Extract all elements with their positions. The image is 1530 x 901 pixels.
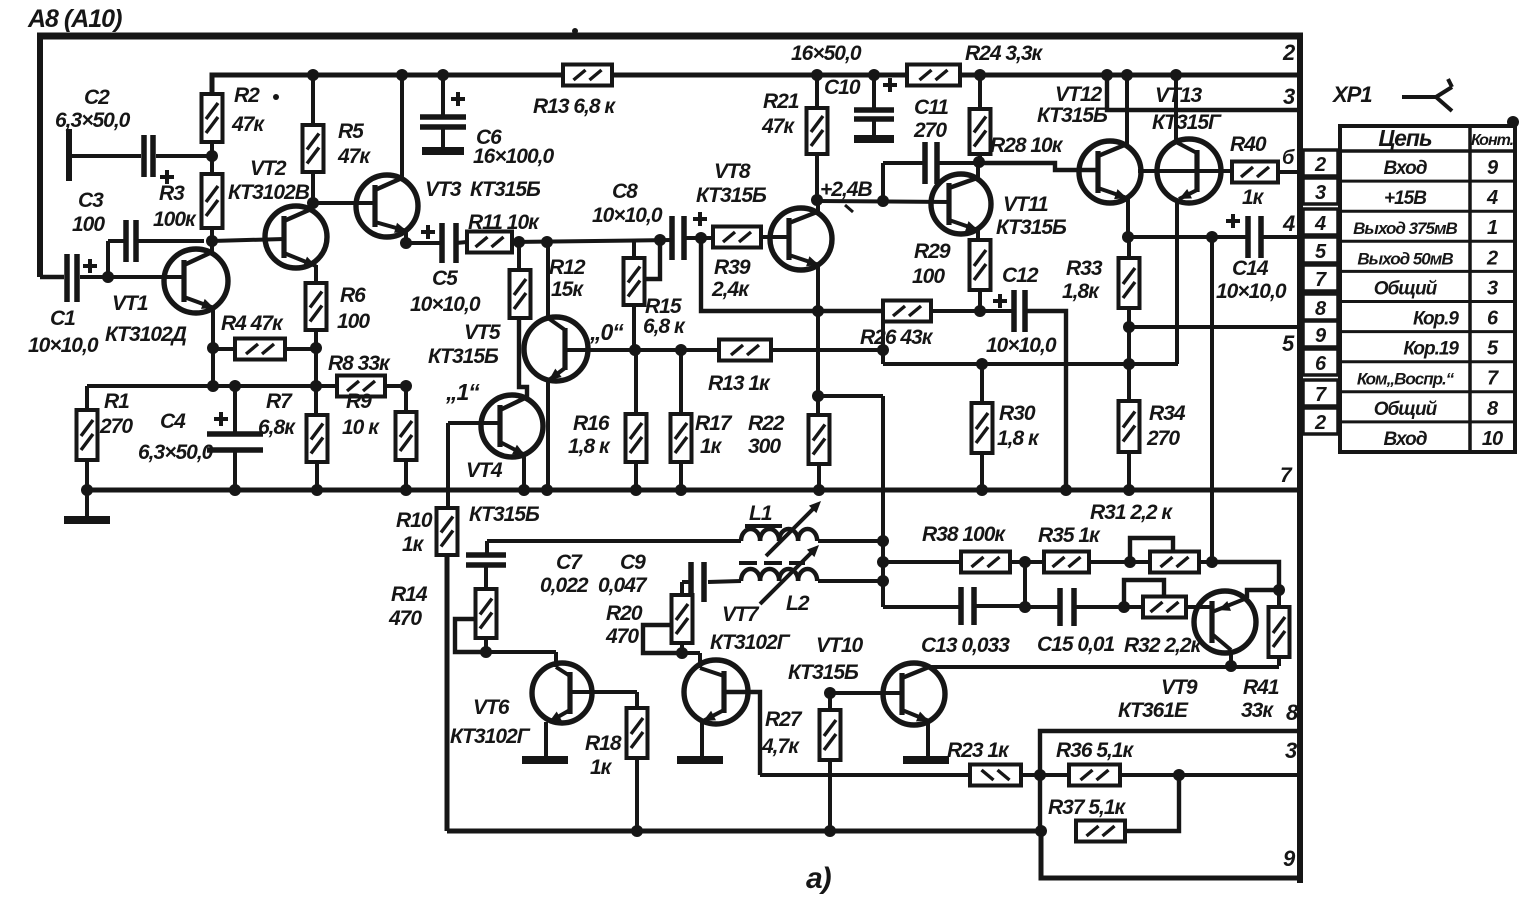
svg-text:С8: С8 [612, 180, 638, 203]
node VT8 emitter / L net [812, 390, 824, 402]
transistor VT6 KT3102G [532, 663, 592, 723]
svg-text:R7: R7 [266, 390, 293, 413]
wire R36 to border net3 [1120, 773, 1302, 777]
svg-text:1,8 к: 1,8 к [997, 427, 1040, 450]
node R17 on 0 net [675, 344, 687, 356]
connector XP1 table frame [1340, 126, 1515, 452]
net9 wire [1041, 831, 1302, 878]
wire net3 lower [760, 773, 970, 777]
svg-text:С4: С4 [160, 410, 186, 433]
wire VT10 collector net y667 [930, 665, 1279, 669]
node y386 R9 top [400, 380, 412, 392]
svg-text:КТ315Б: КТ315Б [788, 661, 859, 684]
svg-text:2: 2 [1314, 154, 1326, 176]
svg-text:R12: R12 [549, 256, 586, 279]
svg-text:R24 3,3к: R24 3,3к [965, 42, 1044, 65]
svg-text:16×50,0: 16×50,0 [791, 42, 862, 65]
svg-text:6,3×50,0: 6,3×50,0 [138, 441, 214, 464]
svg-text:С10: С10 [824, 76, 861, 99]
ground of VT7 [677, 756, 723, 764]
wire y364 net [883, 362, 1178, 366]
VT3 collector [375, 178, 402, 190]
node R5 top on rail [307, 69, 319, 81]
node R4/VT1 emitter [207, 342, 219, 354]
R20 wiper tap [643, 625, 682, 653]
resistor R2 47k [202, 94, 223, 142]
resistor R13 1k (R19) [719, 340, 771, 361]
svg-text:10×10,0: 10×10,0 [986, 334, 1057, 357]
core dashes between L1 L2 [739, 561, 757, 565]
VT11 collector [949, 178, 977, 188]
svg-text:С1: С1 [50, 307, 75, 330]
plus mark of C6 [451, 97, 465, 101]
resistor R29 100 [970, 240, 991, 290]
R7 bottom lead [315, 462, 319, 490]
wire C15 to R32 [1074, 605, 1143, 609]
connector pin boxes [1303, 150, 1338, 176]
resistor R38 100k [961, 552, 1010, 573]
svg-text:Вход: Вход [1384, 158, 1428, 179]
R14 wiper tap [455, 619, 486, 652]
wire R31 right to x1212 [1199, 560, 1212, 564]
svg-text:КТ315Г: КТ315Г [1152, 111, 1222, 134]
wire C9 to R20 [682, 580, 691, 584]
resistor R9 10k [396, 412, 417, 460]
svg-text:R2: R2 [234, 84, 260, 107]
VT13 emitter [1179, 190, 1197, 199]
svg-text:+2,4В: +2,4В [820, 178, 872, 201]
svg-text:VT9: VT9 [1161, 676, 1198, 699]
svg-text:R10: R10 [396, 509, 433, 532]
svg-text:КТ361Е: КТ361Е [1118, 699, 1189, 722]
node VT12 collector on rail [1121, 69, 1133, 81]
svg-text:R34: R34 [1149, 402, 1186, 425]
node R36/R37 link [1173, 769, 1185, 781]
transistor VT12 KT315B [1079, 141, 1141, 203]
wire C8 to R39 [684, 236, 713, 240]
node VT5 collector top [541, 236, 553, 248]
svg-text:1к: 1к [1242, 186, 1265, 209]
svg-text:R6: R6 [340, 284, 366, 307]
VT9 emitter (pnp arrow) [1212, 598, 1247, 612]
svg-text:470: 470 [388, 607, 422, 630]
svg-text:R40: R40 [1230, 133, 1267, 156]
wire C2 left lead [69, 154, 141, 158]
svg-text:6,3×50,0: 6,3×50,0 [55, 109, 131, 132]
plus mark of C2 [160, 175, 174, 179]
VT3 emitter [375, 222, 407, 231]
svg-text:VT5: VT5 [464, 321, 501, 344]
resistor R35 1k [1044, 552, 1089, 573]
svg-text:Общий: Общий [1374, 399, 1438, 420]
resistor R22 300 [809, 415, 830, 464]
wire VT8 emitter tap to x883 [818, 394, 883, 398]
VT10 collector [902, 667, 929, 678]
node R18 bottom on rail [631, 825, 643, 837]
wire C11 left [881, 163, 885, 201]
capacitor C2 [141, 135, 147, 177]
svg-text:КТ3102В: КТ3102В [228, 181, 310, 204]
svg-text:4,7к: 4,7к [761, 735, 800, 758]
ground of R1 [64, 516, 110, 524]
voltage tick [845, 205, 853, 212]
capacitor C3 100 [123, 220, 129, 262]
node R30 top [976, 358, 988, 370]
transistor VT11 KT315B [931, 174, 991, 234]
svg-text:+15В: +15В [1384, 188, 1427, 209]
resistor R41 33k [1269, 607, 1290, 657]
svg-text:Цепь: Цепь [1378, 125, 1432, 151]
svg-text:Конт.: Конт. [1471, 132, 1514, 149]
svg-text:47к: 47к [231, 113, 265, 136]
R15 tap jog [645, 240, 660, 279]
resistor R32 2.2k (trimmer) [1143, 597, 1186, 618]
transistor VT7 KT3102G [684, 660, 748, 724]
svg-text:С3: С3 [78, 189, 104, 212]
capacitor C6 16x100 to ground [441, 75, 445, 115]
resistor R24 3.3k (in rail) [907, 65, 960, 86]
svg-text:VT10: VT10 [816, 634, 864, 657]
svg-text:R38 100к: R38 100к [922, 523, 1006, 546]
svg-text:а): а) [806, 862, 832, 895]
svg-text:R26 43к: R26 43к [860, 326, 934, 349]
svg-text:7: 7 [1280, 464, 1293, 487]
svg-text:Вход: Вход [1384, 429, 1428, 450]
wire R26 to C12 [931, 309, 1014, 313]
resistor R28 10k [970, 109, 991, 154]
svg-text:R22: R22 [748, 412, 785, 435]
resistor R5 47k [303, 125, 324, 172]
svg-text:1: 1 [1487, 217, 1498, 239]
node R28/C11/VT11/VT12 [973, 156, 985, 168]
resistor R37 5.1k [1076, 821, 1125, 842]
inductor L1 (variable) [741, 529, 760, 541]
node R37 left on rail [1035, 825, 1047, 837]
scan speck above R13 [572, 28, 578, 34]
node R21/VT8 collector +2.4V [811, 194, 823, 206]
svg-text:3: 3 [1315, 182, 1326, 204]
VT2 emitter [284, 253, 316, 266]
node R32 left [1118, 601, 1130, 613]
svg-text:R1: R1 [104, 390, 129, 413]
wire C13 to C15 [974, 604, 1025, 608]
svg-text:3: 3 [1487, 277, 1498, 299]
svg-text:КТ315Б: КТ315Б [469, 503, 540, 526]
VT13 collector [1176, 142, 1197, 153]
svg-text:КТ3102Г: КТ3102Г [450, 725, 531, 748]
wire L1 net [487, 539, 741, 543]
VT9 collector [1212, 634, 1231, 650]
transistor VT5 KT315B [524, 317, 588, 381]
resistor R7 6.8k [307, 415, 328, 462]
VT7 emitter [703, 710, 724, 721]
svg-text:ХР1: ХР1 [1331, 82, 1372, 107]
node VT2 collector / VT3 base [307, 197, 319, 209]
R32 wiper loop [1124, 580, 1164, 607]
node R38 branch [877, 556, 889, 568]
node C6 on rail [437, 69, 449, 81]
VT12 emitter [1098, 188, 1127, 198]
svg-text:R13 1к: R13 1к [708, 372, 771, 395]
svg-text:R41: R41 [1243, 676, 1279, 699]
VT11 emitter [949, 220, 978, 230]
resistor R21 47k [807, 108, 828, 154]
resistor R16 1.8k [626, 414, 647, 462]
wire R3 node to VT2 base [212, 239, 284, 241]
VT5 base wire to 0 net [565, 348, 588, 352]
scan speck near R2 [273, 94, 279, 100]
svg-text:VT2: VT2 [250, 157, 287, 180]
svg-text:С9: С9 [620, 551, 646, 574]
node R20 bottom / VT7 base [676, 647, 688, 659]
wire C12 right to ground [1025, 311, 1066, 490]
svg-text:3: 3 [1283, 84, 1295, 109]
svg-text:2: 2 [1486, 247, 1498, 269]
L2 adjust arrow [760, 549, 815, 604]
svg-text:4: 4 [1282, 211, 1295, 236]
wire to C13 [883, 605, 961, 609]
svg-text:6,8 к: 6,8 к [643, 315, 686, 338]
wire R23 to R36 [1021, 773, 1069, 777]
svg-text:1к: 1к [590, 756, 613, 779]
plus mark of C10 [883, 83, 897, 87]
svg-text:R14: R14 [391, 583, 428, 606]
VT1 collector [184, 252, 212, 265]
svg-text:10: 10 [1482, 428, 1503, 450]
svg-text:б: б [1282, 147, 1295, 169]
power rail +15V net 2 [212, 75, 563, 96]
wire C2 to R2/R3 node [156, 154, 212, 158]
node L2 right [877, 575, 889, 587]
svg-text:С2: С2 [84, 86, 110, 109]
wire feedback net [87, 384, 337, 388]
VT5 emitter [549, 368, 565, 380]
svg-text:1к: 1к [402, 533, 425, 556]
svg-text:16×100,0: 16×100,0 [473, 145, 554, 168]
node VT9 collector on y667 [1225, 660, 1237, 672]
svg-text:КТ315Б: КТ315Б [996, 216, 1067, 239]
transistor VT2 KT3102V [265, 206, 327, 268]
svg-text:С15 0,01: С15 0,01 [1037, 633, 1115, 656]
svg-text:5: 5 [1282, 331, 1295, 356]
node VT8 emitter / R26 wire [812, 305, 824, 317]
R6 bottom lead [314, 330, 318, 415]
svg-text:С14: С14 [1232, 257, 1269, 280]
transistor VT3 KT315B [356, 175, 418, 237]
svg-text:КТ315Б: КТ315Б [1037, 104, 1108, 127]
net8 wire [1040, 731, 1302, 775]
svg-text:R13 6,8 к: R13 6,8 к [533, 95, 616, 118]
svg-text:R21: R21 [763, 90, 799, 113]
capacitor C9 0.047 [688, 562, 694, 602]
wire x1212 to R41 top [1212, 562, 1279, 590]
svg-text:10×10,0: 10×10,0 [1216, 280, 1287, 303]
svg-text:R16: R16 [573, 412, 610, 435]
svg-text:VT1: VT1 [112, 292, 148, 315]
wire to VT6 base [486, 650, 556, 654]
wire C8 node down to R26 wire [701, 238, 883, 311]
svg-text:Кор.19: Кор.19 [1403, 339, 1459, 360]
resistor R26 43k [883, 301, 931, 322]
svg-text:R30: R30 [999, 402, 1036, 425]
wire to VT12 base [979, 163, 1098, 170]
capacitor C10 16x50 to ground [872, 75, 876, 108]
svg-text:VT13: VT13 [1155, 84, 1203, 107]
node y386 C4 top [229, 380, 241, 392]
node C10 on rail [868, 69, 880, 81]
R9 bottom lead [404, 460, 408, 490]
node VT12 emitter [1122, 231, 1134, 243]
left border of unit A8 [37, 33, 43, 277]
wire L2 right [818, 579, 883, 583]
node x1212 on y237 [1206, 231, 1218, 243]
plus mark of C1 [83, 264, 97, 268]
R31 wiper loop [1130, 538, 1173, 562]
svg-text:1,8к: 1,8к [1062, 280, 1100, 303]
node R4/R6 [310, 342, 322, 354]
svg-text:Выход 50мВ: Выход 50мВ [1357, 249, 1453, 268]
VT4 emitter [500, 442, 525, 455]
transistor VT13 KT315G [1157, 139, 1221, 203]
svg-text:10 к: 10 к [342, 416, 380, 439]
svg-text:КТ315Б: КТ315Б [470, 178, 541, 201]
svg-text:R3: R3 [159, 182, 185, 205]
wire R39 to VT8 base [761, 235, 789, 239]
svg-text:100: 100 [72, 213, 105, 236]
svg-text:С5: С5 [432, 267, 458, 290]
VT10 emitter [902, 710, 929, 721]
resistor R36 5.1k [1069, 765, 1120, 786]
wire R35 to R31 [1089, 560, 1150, 564]
capacitor C2 terminal bar [66, 129, 72, 181]
node R27/VT10 base [824, 687, 836, 699]
svg-text:R5: R5 [338, 120, 364, 143]
resistor R33 1.8k [1119, 258, 1140, 308]
bottom rail of lower section [447, 829, 1041, 834]
svg-text:VT12: VT12 [1055, 83, 1103, 106]
svg-text:10×10,0: 10×10,0 [28, 334, 99, 357]
vertical R26 corner to y364 [881, 320, 885, 364]
svg-text:КТ315Б: КТ315Б [428, 345, 499, 368]
svg-text:КТ315Б: КТ315Б [696, 184, 767, 207]
svg-text:10×10,0: 10×10,0 [592, 204, 663, 227]
plus mark of C8 [693, 217, 707, 221]
svg-text:6,8к: 6,8к [258, 416, 296, 439]
svg-text:R23 1к: R23 1к [947, 739, 1010, 762]
VT1 emitter [184, 297, 214, 308]
plus mark of C12 [993, 299, 1007, 303]
VT8 collector [789, 212, 817, 223]
svg-text:R29: R29 [914, 240, 951, 263]
VT2 collector [284, 210, 309, 221]
capacitor C8 10x10 [669, 216, 675, 260]
wire R11 to C8 [512, 240, 672, 242]
vertical x883 to EQ net [881, 396, 885, 607]
svg-text:10×10,0: 10×10,0 [410, 293, 481, 316]
svg-text:4: 4 [1314, 213, 1326, 235]
capacitor C14 10x10 [1245, 216, 1251, 258]
wire net5 to border [1129, 325, 1300, 329]
svg-text:1,8 к: 1,8 к [568, 435, 611, 458]
svg-text:2: 2 [1282, 40, 1296, 65]
VT8 emitter [789, 255, 819, 265]
svg-text:100: 100 [337, 310, 370, 333]
L1 adjust arrow [766, 505, 817, 556]
VT4 base wire [448, 421, 500, 425]
svg-text:С13 0,033: С13 0,033 [921, 634, 1010, 657]
node VT13 collector on rail [1170, 69, 1182, 81]
plus mark of C5 [421, 230, 435, 234]
resistor R30 1.8k [972, 403, 993, 453]
R1 leads [85, 386, 89, 410]
resistor R14 470 (trimmer) [476, 589, 497, 638]
capacitor C7 0.022 [466, 552, 506, 558]
R37 link vertical [1125, 775, 1179, 831]
svg-text:R18: R18 [585, 732, 622, 755]
transistor VT1 KT3102D [164, 249, 228, 313]
VT13 base line [1157, 169, 1232, 173]
svg-text:А8 (А10): А8 (А10) [27, 5, 122, 33]
transistor VT4 KT315B [481, 395, 543, 457]
wire R38 branch [883, 560, 961, 564]
resistor R40 1k [1232, 162, 1278, 183]
svg-text:R4 47к: R4 47к [221, 312, 284, 335]
node y386 VT1em [207, 380, 219, 392]
resistor R12 15k [510, 270, 531, 318]
node C1/C3/VT1 base [102, 271, 114, 283]
resistor R39 2.4k [713, 227, 761, 248]
svg-text:„0“: „0“ [589, 319, 624, 345]
svg-text:R39: R39 [714, 256, 751, 279]
top border of unit A8 [37, 33, 1303, 40]
node R23/R36/net8 [1034, 769, 1046, 781]
node 0 net to x883 [877, 344, 889, 356]
svg-text:0,022: 0,022 [540, 574, 589, 597]
svg-text:R8 33к: R8 33к [328, 352, 391, 375]
node C8/R39 [695, 232, 707, 244]
node VT3 collector on rail [396, 69, 408, 81]
svg-text:33к: 33к [1241, 699, 1274, 722]
resistor R17 1k [671, 414, 692, 462]
svg-text:R32 2,2к: R32 2,2к [1124, 634, 1203, 657]
svg-text:VT3: VT3 [425, 178, 462, 201]
resistor R8 33k [337, 376, 385, 397]
wire L2 net left [708, 581, 741, 582]
svg-text:Ком„Воспр.“: Ком„Воспр.“ [1357, 370, 1455, 389]
svg-text:15к: 15к [551, 278, 584, 301]
VT12 collector [1098, 144, 1127, 156]
inductor L2 (variable) [741, 569, 760, 581]
svg-text:VT11: VT11 [1003, 193, 1048, 216]
node R3 bottom [206, 235, 218, 247]
capacitor C1 10x10.0 [64, 254, 70, 302]
VT6 collector wire to R18 [570, 690, 637, 694]
svg-text:КТ3102Д: КТ3102Д [105, 323, 187, 346]
svg-text:R35 1к: R35 1к [1038, 524, 1101, 547]
VT10 base wire [830, 691, 901, 695]
resistor R18 1k [627, 708, 648, 758]
resistor R4 47k [235, 339, 285, 360]
ground rail net 7 [87, 488, 1300, 493]
svg-text:100: 100 [912, 265, 945, 288]
R5 leads [311, 75, 315, 125]
feedback vertical x1212 [1210, 237, 1214, 562]
ground of VT6 [522, 756, 568, 764]
node R21 top on rail [811, 69, 823, 81]
dot at table corner [1507, 116, 1519, 128]
svg-text:КТ3102Г: КТ3102Г [710, 631, 791, 654]
svg-text:R17: R17 [695, 412, 733, 435]
